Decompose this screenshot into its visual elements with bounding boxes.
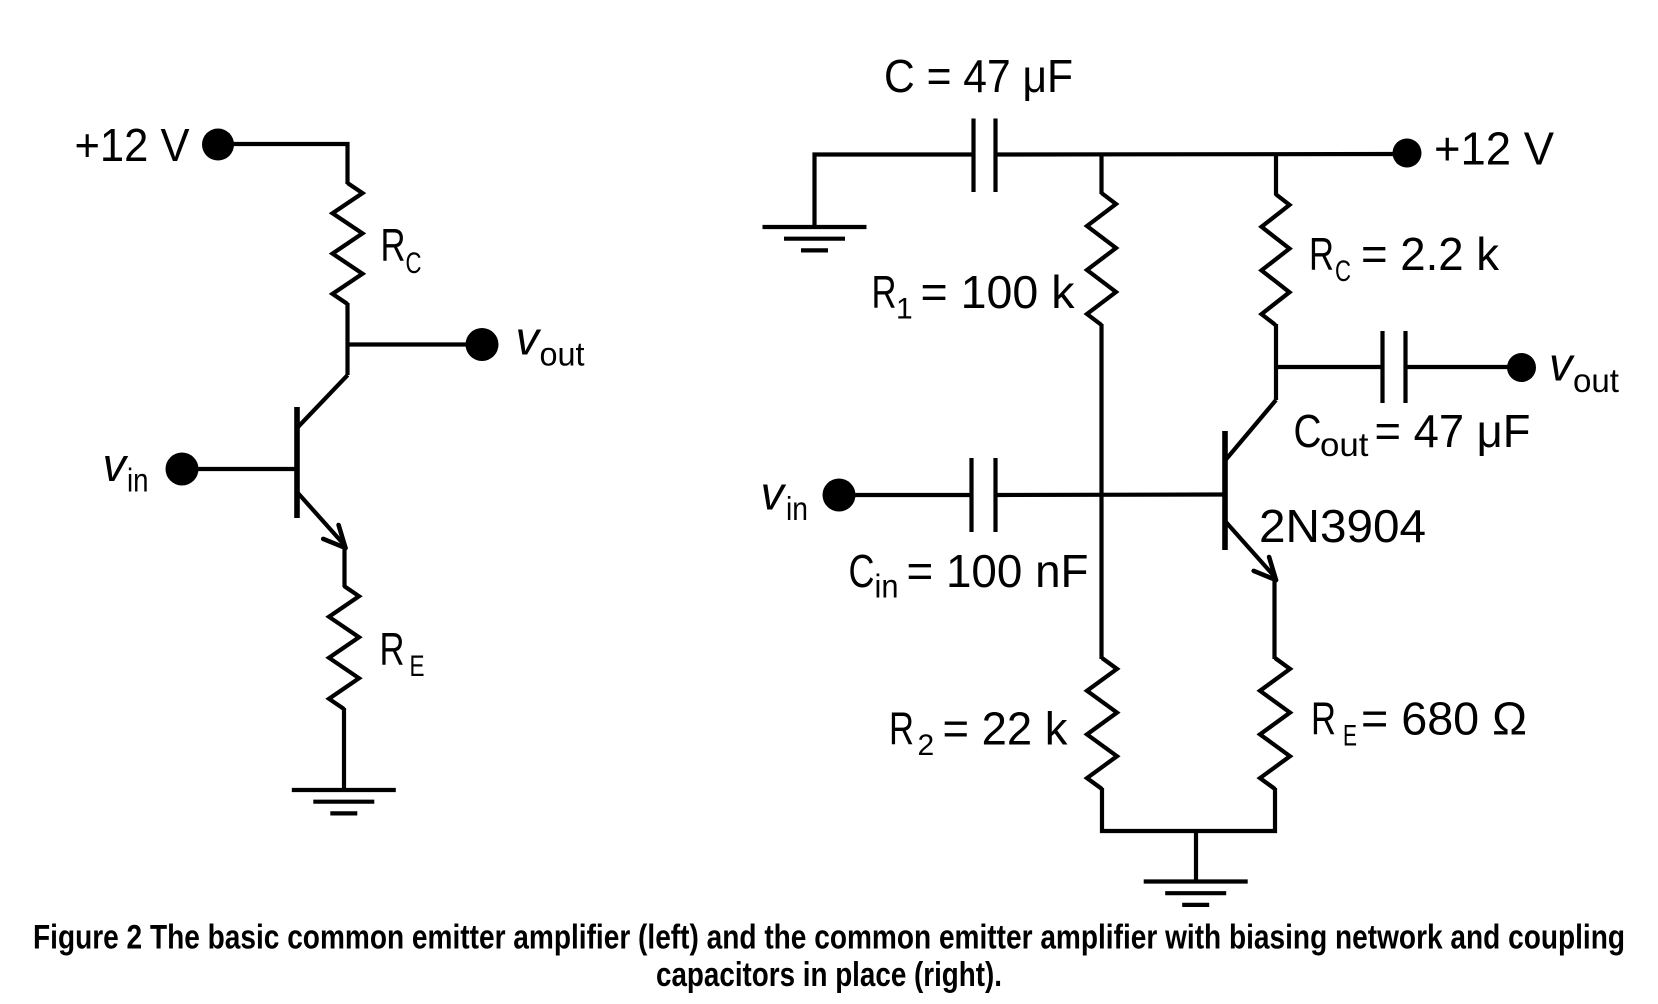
svg-text:= 100 k: = 100 k	[921, 266, 1076, 318]
svg-text:2N3904: 2N3904	[1259, 500, 1426, 552]
svg-text:v: v	[761, 467, 787, 520]
svg-text:out: out	[1320, 426, 1369, 463]
svg-text:1: 1	[896, 293, 913, 326]
svg-text:+12 V: +12 V	[1434, 123, 1554, 175]
svg-text:out: out	[1573, 362, 1619, 399]
svg-text:Figure 2 The basic common emit: Figure 2 The basic common emitter amplif…	[33, 919, 1625, 957]
svg-text:capacitors in place (right).: capacitors in place (right).	[656, 956, 1002, 994]
svg-text:2: 2	[918, 729, 935, 762]
svg-text:R: R	[380, 623, 405, 675]
svg-text:R: R	[889, 702, 914, 754]
svg-text:v: v	[516, 312, 542, 365]
svg-text:+12 V: +12 V	[75, 119, 190, 171]
svg-text:R: R	[1309, 228, 1334, 280]
svg-text:R: R	[381, 219, 406, 271]
svg-text:C: C	[406, 247, 422, 280]
svg-text:= 680 Ω: = 680 Ω	[1361, 692, 1527, 744]
svg-text:= 2.2 k: = 2.2 k	[1361, 228, 1500, 280]
svg-text:v: v	[103, 438, 129, 491]
svg-text:E: E	[410, 650, 425, 683]
svg-text:R: R	[1311, 692, 1336, 744]
svg-text:= 47 μF: = 47 μF	[1375, 405, 1531, 457]
svg-text:C: C	[1335, 255, 1351, 288]
svg-text:out: out	[540, 336, 585, 373]
svg-text:C: C	[849, 545, 875, 597]
svg-text:in: in	[786, 490, 808, 527]
svg-text:in: in	[875, 568, 899, 605]
svg-text:= 100 nF: = 100 nF	[907, 545, 1089, 597]
svg-text:R: R	[872, 266, 897, 318]
svg-text:in: in	[127, 462, 149, 499]
svg-text:= 22 k: = 22 k	[943, 702, 1069, 754]
svg-text:E: E	[1343, 720, 1357, 753]
svg-text:C: C	[1294, 405, 1322, 457]
svg-text:v: v	[1549, 338, 1575, 391]
svg-text:C = 47 μF: C = 47 μF	[884, 50, 1073, 102]
